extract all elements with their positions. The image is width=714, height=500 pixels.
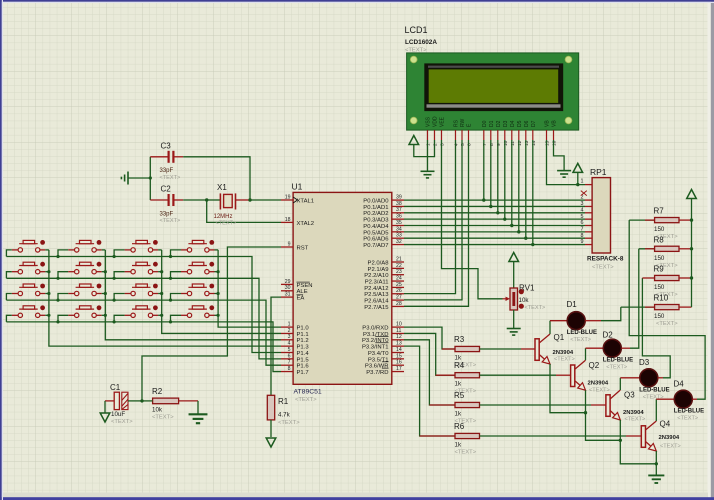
svg-text:1k: 1k [455,411,462,418]
svg-text:P0.6/AD6: P0.6/AD6 [363,237,389,243]
power arrow for LCD VDD [409,136,419,145]
svg-text:XTAL2: XTAL2 [297,221,315,227]
svg-text:1: 1 [288,322,291,328]
RP1 pins 2-9 [585,200,592,244]
svg-text:R4: R4 [454,361,465,370]
svg-text:P2.0/A8: P2.0/A8 [368,260,390,266]
wire D1 cathode to R10 [585,320,601,322]
transistor Q2 2N3904 [571,360,586,390]
svg-text:33: 33 [396,233,402,239]
svg-text:11: 11 [510,141,516,146]
wire RS to P2.5 [404,140,456,294]
svg-text:150: 150 [654,313,665,320]
svg-text:P3.4/T0: P3.4/T0 [368,351,389,357]
wire button S16 left lead to row bus [171,315,182,322]
svg-text:D1: D1 [489,120,495,127]
LCD data bus verticals D0-D7 [483,140,485,200]
svg-text:28: 28 [396,301,402,307]
svg-text:<TEXT>: <TEXT> [656,321,678,327]
svg-text:12: 12 [517,140,523,146]
svg-text:2N3904: 2N3904 [623,410,644,416]
svg-text:LCD1: LCD1 [405,25,428,35]
svg-text:39: 39 [396,195,402,201]
wire button S12 right lead to column [215,293,219,295]
ground under LCD pin1 [427,140,429,171]
svg-text:2N3904: 2N3904 [659,435,680,441]
LCD pin names (rotated) [426,116,558,127]
resistor R6 [455,433,480,438]
svg-text:9: 9 [581,239,584,245]
svg-text:24: 24 [396,275,402,281]
svg-text:2N3904: 2N3904 [588,381,609,387]
push button S6 [68,262,102,274]
LCD screen bezel [424,63,563,111]
capacitor C3 [150,151,183,163]
wire button S9 right lead to column [45,293,49,295]
wire Q4 collector to D4 [655,399,657,421]
resistor R1 [267,395,274,420]
wire R4 to Q2 base [480,374,557,376]
keypad column wire 3 [162,250,281,334]
P0 bus wires to RP1 [404,199,585,201]
ground below Q4 [648,475,664,483]
svg-text:R9: R9 [654,265,665,274]
LED D2 (LED-BLUE) [603,339,621,357]
svg-text:R5: R5 [454,391,465,400]
svg-text:19: 19 [285,194,291,200]
svg-text:7: 7 [581,226,584,232]
svg-text:C3: C3 [161,142,172,151]
svg-text:<TEXT>: <TEXT> [152,415,174,421]
svg-text:<TEXT>: <TEXT> [643,394,664,400]
junction VCC rail [690,276,693,279]
svg-text:<TEXT>: <TEXT> [111,419,133,425]
svg-text:R1: R1 [278,397,289,406]
svg-text:P2.2/A10: P2.2/A10 [364,273,389,279]
svg-text:150: 150 [654,284,665,291]
svg-text:VB: VB [545,120,551,127]
wire button S6 left lead to row bus [58,272,68,279]
keypad row bus 2 [6,278,281,359]
svg-text:18: 18 [285,217,291,223]
svg-text:<TEXT>: <TEXT> [660,444,681,450]
wire button S7 left lead to row bus [114,272,125,279]
svg-text:<TEXT>: <TEXT> [525,305,546,311]
svg-text:12: 12 [396,334,402,340]
push button S9 [12,284,46,296]
svg-text:Q4: Q4 [660,420,671,429]
svg-text:<TEXT>: <TEXT> [570,337,591,343]
svg-text:16: 16 [552,140,558,146]
svg-text:VSS: VSS [426,116,432,127]
wire button S11 right lead to column [158,293,162,295]
LED D4 (LED-BLUE) [674,390,692,408]
svg-text:8: 8 [581,233,584,239]
wire button S2 right lead to column [102,249,106,251]
svg-text:5: 5 [288,347,291,353]
svg-text:<TEXT>: <TEXT> [554,357,575,363]
svg-text:Q1: Q1 [554,333,565,342]
svg-text:P0.0/AD0: P0.0/AD0 [363,199,389,205]
wire Q4 emitter to ground [655,451,657,475]
wire cap left rail [149,157,151,200]
op-amp U1 body (AT89C51 MCU) [293,192,392,384]
U1 left pin stubs and numbers [281,200,293,372]
svg-text:37: 37 [396,207,402,213]
wire button S10 right lead to column [102,293,106,295]
svg-text:1k: 1k [455,442,462,449]
svg-text:C2: C2 [161,185,172,194]
svg-text:7: 7 [482,143,488,146]
svg-text:R6: R6 [454,422,465,431]
wire EA to R1 [271,297,281,395]
wire R2 to ground [197,401,199,414]
wire Q2 emitter cascade [586,390,621,440]
svg-text:PSEN: PSEN [297,283,313,289]
svg-text:XTAL1: XTAL1 [297,198,315,204]
svg-text:7: 7 [288,360,291,366]
svg-text:10: 10 [396,322,402,328]
wire button S11 left lead to row bus [114,294,125,301]
wire P3.0 to R3 [404,327,455,349]
wire C3 to crystal right node [183,157,250,200]
svg-text:C1: C1 [110,383,121,392]
keypad column wire 1 [49,250,281,346]
ground LCD pin16 [557,171,571,178]
svg-text:P3.2/INT0: P3.2/INT0 [362,338,389,344]
svg-text:D0: D0 [482,120,488,127]
svg-text:32: 32 [396,239,402,245]
resistor R10 [621,306,655,308]
wire XTAL2 jog [207,200,281,222]
svg-text:11: 11 [396,328,401,334]
svg-text:P3.3/INT1: P3.3/INT1 [362,345,389,351]
svg-text:D3: D3 [639,358,650,367]
U1 right pin stubs [392,200,404,371]
wire button S15 left lead to row bus [114,315,125,322]
junction crystal left [205,198,208,201]
crystal X1 [207,193,250,209]
junction button S7 column [160,270,163,273]
svg-text:<TEXT>: <TEXT> [278,420,300,426]
svg-text:16: 16 [396,360,402,366]
push button S3 [125,240,159,252]
svg-text:<TEXT>: <TEXT> [216,221,237,227]
svg-text:D7: D7 [531,120,537,127]
svg-text:33pF: 33pF [160,168,174,174]
wire VEE to RV1 [442,140,503,299]
junction button S10 column [104,292,107,295]
wire R6 to Q4 base [480,435,627,437]
svg-text:4: 4 [454,143,460,146]
svg-text:P3.6/WR: P3.6/WR [365,364,389,370]
wire Q2 collector to D2 [585,348,587,360]
svg-text:5: 5 [581,214,584,220]
ground below RV1 [507,329,521,336]
junction RST/C1/R2 [140,399,143,402]
RV1 wiper arrow [503,297,511,301]
wire R3 to Q1 base [480,348,522,350]
svg-text:9: 9 [288,241,291,247]
svg-text:1: 1 [426,143,432,146]
svg-text:38: 38 [396,201,402,207]
svg-text:RST: RST [297,245,309,251]
transistor Q1 2N3904 [535,334,550,364]
svg-text:R10: R10 [654,294,669,303]
wire C1 to ground arrow [104,401,106,413]
svg-text:2: 2 [288,328,291,334]
wire E to P2.7 [404,140,469,306]
wire button S1 right lead to column [45,249,49,251]
junction button S16 column [217,314,220,317]
svg-text:14: 14 [531,140,537,146]
svg-text:P3.1/TXD: P3.1/TXD [363,332,389,338]
svg-text:P2.3/A11: P2.3/A11 [365,279,389,285]
svg-text:150: 150 [654,255,665,262]
svg-text:P1.6: P1.6 [297,364,310,370]
svg-text:26: 26 [396,288,402,294]
svg-text:150: 150 [654,226,665,233]
node cap rail [149,176,152,179]
svg-text:13: 13 [396,341,402,347]
wire button S8 right lead to column [215,271,219,273]
svg-text:27: 27 [396,295,402,301]
push button S14 [68,305,102,317]
svg-text:15: 15 [396,353,402,359]
push button S2 [68,240,102,252]
junction button S14 column [104,314,107,317]
svg-text:D2: D2 [496,120,502,127]
wire button S4 right lead to column [215,249,219,251]
svg-text:34: 34 [396,226,402,232]
resistor R5 [455,402,480,407]
svg-text:VDD: VDD [433,116,439,127]
ground arrow below C1 [100,413,110,422]
junction button S6 column [104,270,107,273]
wire button S3 right lead to column [158,249,162,251]
junction button S13 column [47,314,50,317]
push button S16 [181,305,215,317]
svg-text:<TEXT>: <TEXT> [625,417,646,423]
svg-text:LED-BLUE: LED-BLUE [639,387,669,393]
push button S7 [125,262,159,274]
svg-text:D2: D2 [603,331,614,340]
svg-text:<TEXT>: <TEXT> [455,450,477,456]
svg-text:30: 30 [285,285,291,291]
wire button S12 left lead to row bus [171,294,182,301]
svg-text:RS: RS [454,119,460,127]
svg-text:3: 3 [581,201,584,207]
svg-text:P1.2: P1.2 [297,338,309,344]
wire R5 to Q3 base [480,404,592,406]
svg-text:LED-BLUE: LED-BLUE [603,358,633,364]
wire RST net [142,247,281,401]
svg-text:P1.1: P1.1 [297,332,309,338]
svg-text:AT89C51: AT89C51 [294,389,322,396]
wire D3 cathode to R9 jog [658,377,663,379]
svg-text:10uF: 10uF [111,411,125,418]
svg-text:<TEXT>: <TEXT> [405,48,427,54]
wire button S9 left lead to row bus [6,294,11,301]
push button S13 [12,305,46,317]
keypad row bus 4 [6,322,281,372]
svg-text:P2.5/A13: P2.5/A13 [364,292,389,298]
svg-text:10k: 10k [519,297,530,304]
wire button S5 left lead to row bus [6,272,11,279]
power arrow RP1 common [573,163,583,172]
svg-text:LED-BLUE: LED-BLUE [567,330,597,336]
ground below R2 [189,414,208,423]
svg-text:U1: U1 [292,182,303,192]
LCD screen glass [429,69,559,103]
wire P3.2 to R5 [404,340,455,405]
wire button S10 left lead to row bus [58,294,68,301]
svg-text:3: 3 [288,334,291,340]
svg-text:P2.6/A14: P2.6/A14 [364,299,389,305]
svg-text:R8: R8 [654,235,665,244]
junction button S12 column [217,292,220,295]
svg-text:D3: D3 [503,120,509,127]
svg-text:P1.0: P1.0 [297,326,310,332]
svg-text:Q3: Q3 [624,391,635,400]
svg-text:P0.5/AD5: P0.5/AD5 [363,230,389,236]
wire Q3 collector to D3 [619,378,621,390]
push button S4 [181,240,215,252]
svg-text:P0.4/AD4: P0.4/AD4 [363,224,389,230]
wire Q1 collector to D1 [549,321,551,334]
push button S11 [125,284,159,296]
svg-text:36: 36 [396,214,402,220]
svg-text:33pF: 33pF [160,211,174,217]
wire P3.1 to R4 [404,333,455,375]
push button S1 [12,240,46,252]
wire Q1 emitter cascade [550,364,586,413]
svg-text:P0.3/AD3: P0.3/AD3 [363,218,389,224]
svg-text:23: 23 [396,269,402,275]
svg-text:VEE: VEE [440,116,446,127]
wire RW to P2.6 [404,140,462,300]
junction button S15 column [160,314,163,317]
power arrow above RV1 [509,253,519,262]
keypad row bus 3 [6,300,281,365]
svg-text:P0.7/AD7: P0.7/AD7 [363,243,388,249]
svg-text:VB: VB [552,120,558,127]
svg-text:R7: R7 [654,207,665,216]
junction button S11 column [160,292,163,295]
svg-text:RW: RW [460,118,466,127]
wire Q3 emitter cascade [620,420,656,464]
svg-text:<TEXT>: <TEXT> [160,175,181,181]
svg-text:1k: 1k [455,381,462,388]
wire button S6 right lead to column [102,271,106,273]
junction button S8 column [217,270,220,273]
transistor Q4 2N3904 [641,421,656,451]
svg-text:Q2: Q2 [589,361,600,370]
svg-text:P1.4: P1.4 [297,351,310,357]
LCD1 module body [407,53,579,130]
svg-text:9: 9 [496,143,502,146]
svg-text:P3.5/T1: P3.5/T1 [368,357,389,363]
svg-text:1: 1 [581,179,584,185]
svg-text:X1: X1 [217,183,227,192]
window frame [708,0,712,500]
svg-text:P1.7: P1.7 [297,370,309,376]
junction VCC rail [690,218,693,221]
LCD pin stubs [428,130,554,140]
svg-text:2N3904: 2N3904 [553,350,574,356]
keypad column wire 4 [218,250,281,327]
push button S5 [12,262,46,274]
potentiometer RV1 [510,288,518,310]
svg-text:P0.2/AD2: P0.2/AD2 [363,211,388,217]
junction button S9 column [47,292,50,295]
junction crystal right / XTAL1 wire [248,198,251,201]
keypad row bus 1 [6,257,281,353]
svg-text:LCD1602A: LCD1602A [405,39,437,46]
XTAL1 clock mark [293,197,297,203]
svg-text:14: 14 [396,347,402,353]
wire button S5 right lead to column [45,271,49,273]
svg-text:6: 6 [288,353,291,359]
svg-text:LED-BLUE: LED-BLUE [674,409,704,415]
wire button S13 left lead to row bus [6,315,11,322]
svg-text:4.7k: 4.7k [278,412,291,419]
svg-text:6: 6 [581,220,584,226]
svg-text:RP1: RP1 [590,167,607,177]
resistor R2 [153,398,179,404]
svg-text:D6: D6 [524,120,530,127]
svg-text:3: 3 [440,143,446,146]
svg-text:P1.5: P1.5 [297,357,310,363]
RP1 pin 1 [585,184,592,186]
wire D2 cathode to R8 [621,347,630,349]
svg-text:R3: R3 [454,335,465,344]
svg-text:P3.0/RXD: P3.0/RXD [362,326,388,332]
svg-text:<TEXT>: <TEXT> [592,265,614,271]
LCD screen stripes [428,66,559,68]
svg-text:P0.1/AD1: P0.1/AD1 [363,205,388,211]
svg-text:13: 13 [524,140,530,146]
keypad column wire 2 [105,250,281,340]
resistor pack RP1 [592,178,610,253]
RV1 terminal dots [519,289,524,294]
transistor Q3 2N3904 [606,390,620,420]
resistor R7 [629,219,654,221]
svg-text:<TEXT>: <TEXT> [295,397,317,403]
svg-text:4: 4 [581,207,584,213]
push button S8 [181,262,215,274]
svg-text:15: 15 [545,140,551,146]
wire button S13 right lead to column [45,314,49,316]
svg-text:<TEXT>: <TEXT> [160,218,181,224]
svg-text:P2.4/A12: P2.4/A12 [364,286,388,292]
svg-text:10k: 10k [152,407,163,414]
svg-text:D4: D4 [674,380,685,389]
wire D4 cathode to R7 jog [692,398,697,400]
svg-text:<TEXT>: <TEXT> [677,416,698,422]
svg-text:6: 6 [467,143,473,146]
junction VCC rail [690,247,693,250]
wire button S8 left lead to row bus [171,272,182,279]
svg-text:RV1: RV1 [519,284,535,293]
push button S12 [181,284,215,296]
svg-text:<TEXT>: <TEXT> [606,365,627,371]
capacitor C2 [150,194,183,206]
wire button S2 left lead to row bus [58,250,68,257]
LCD pin15 wire to power [547,140,586,185]
wire button S16 right lead to column [215,314,219,316]
svg-text:RESPACK-8: RESPACK-8 [587,256,624,263]
